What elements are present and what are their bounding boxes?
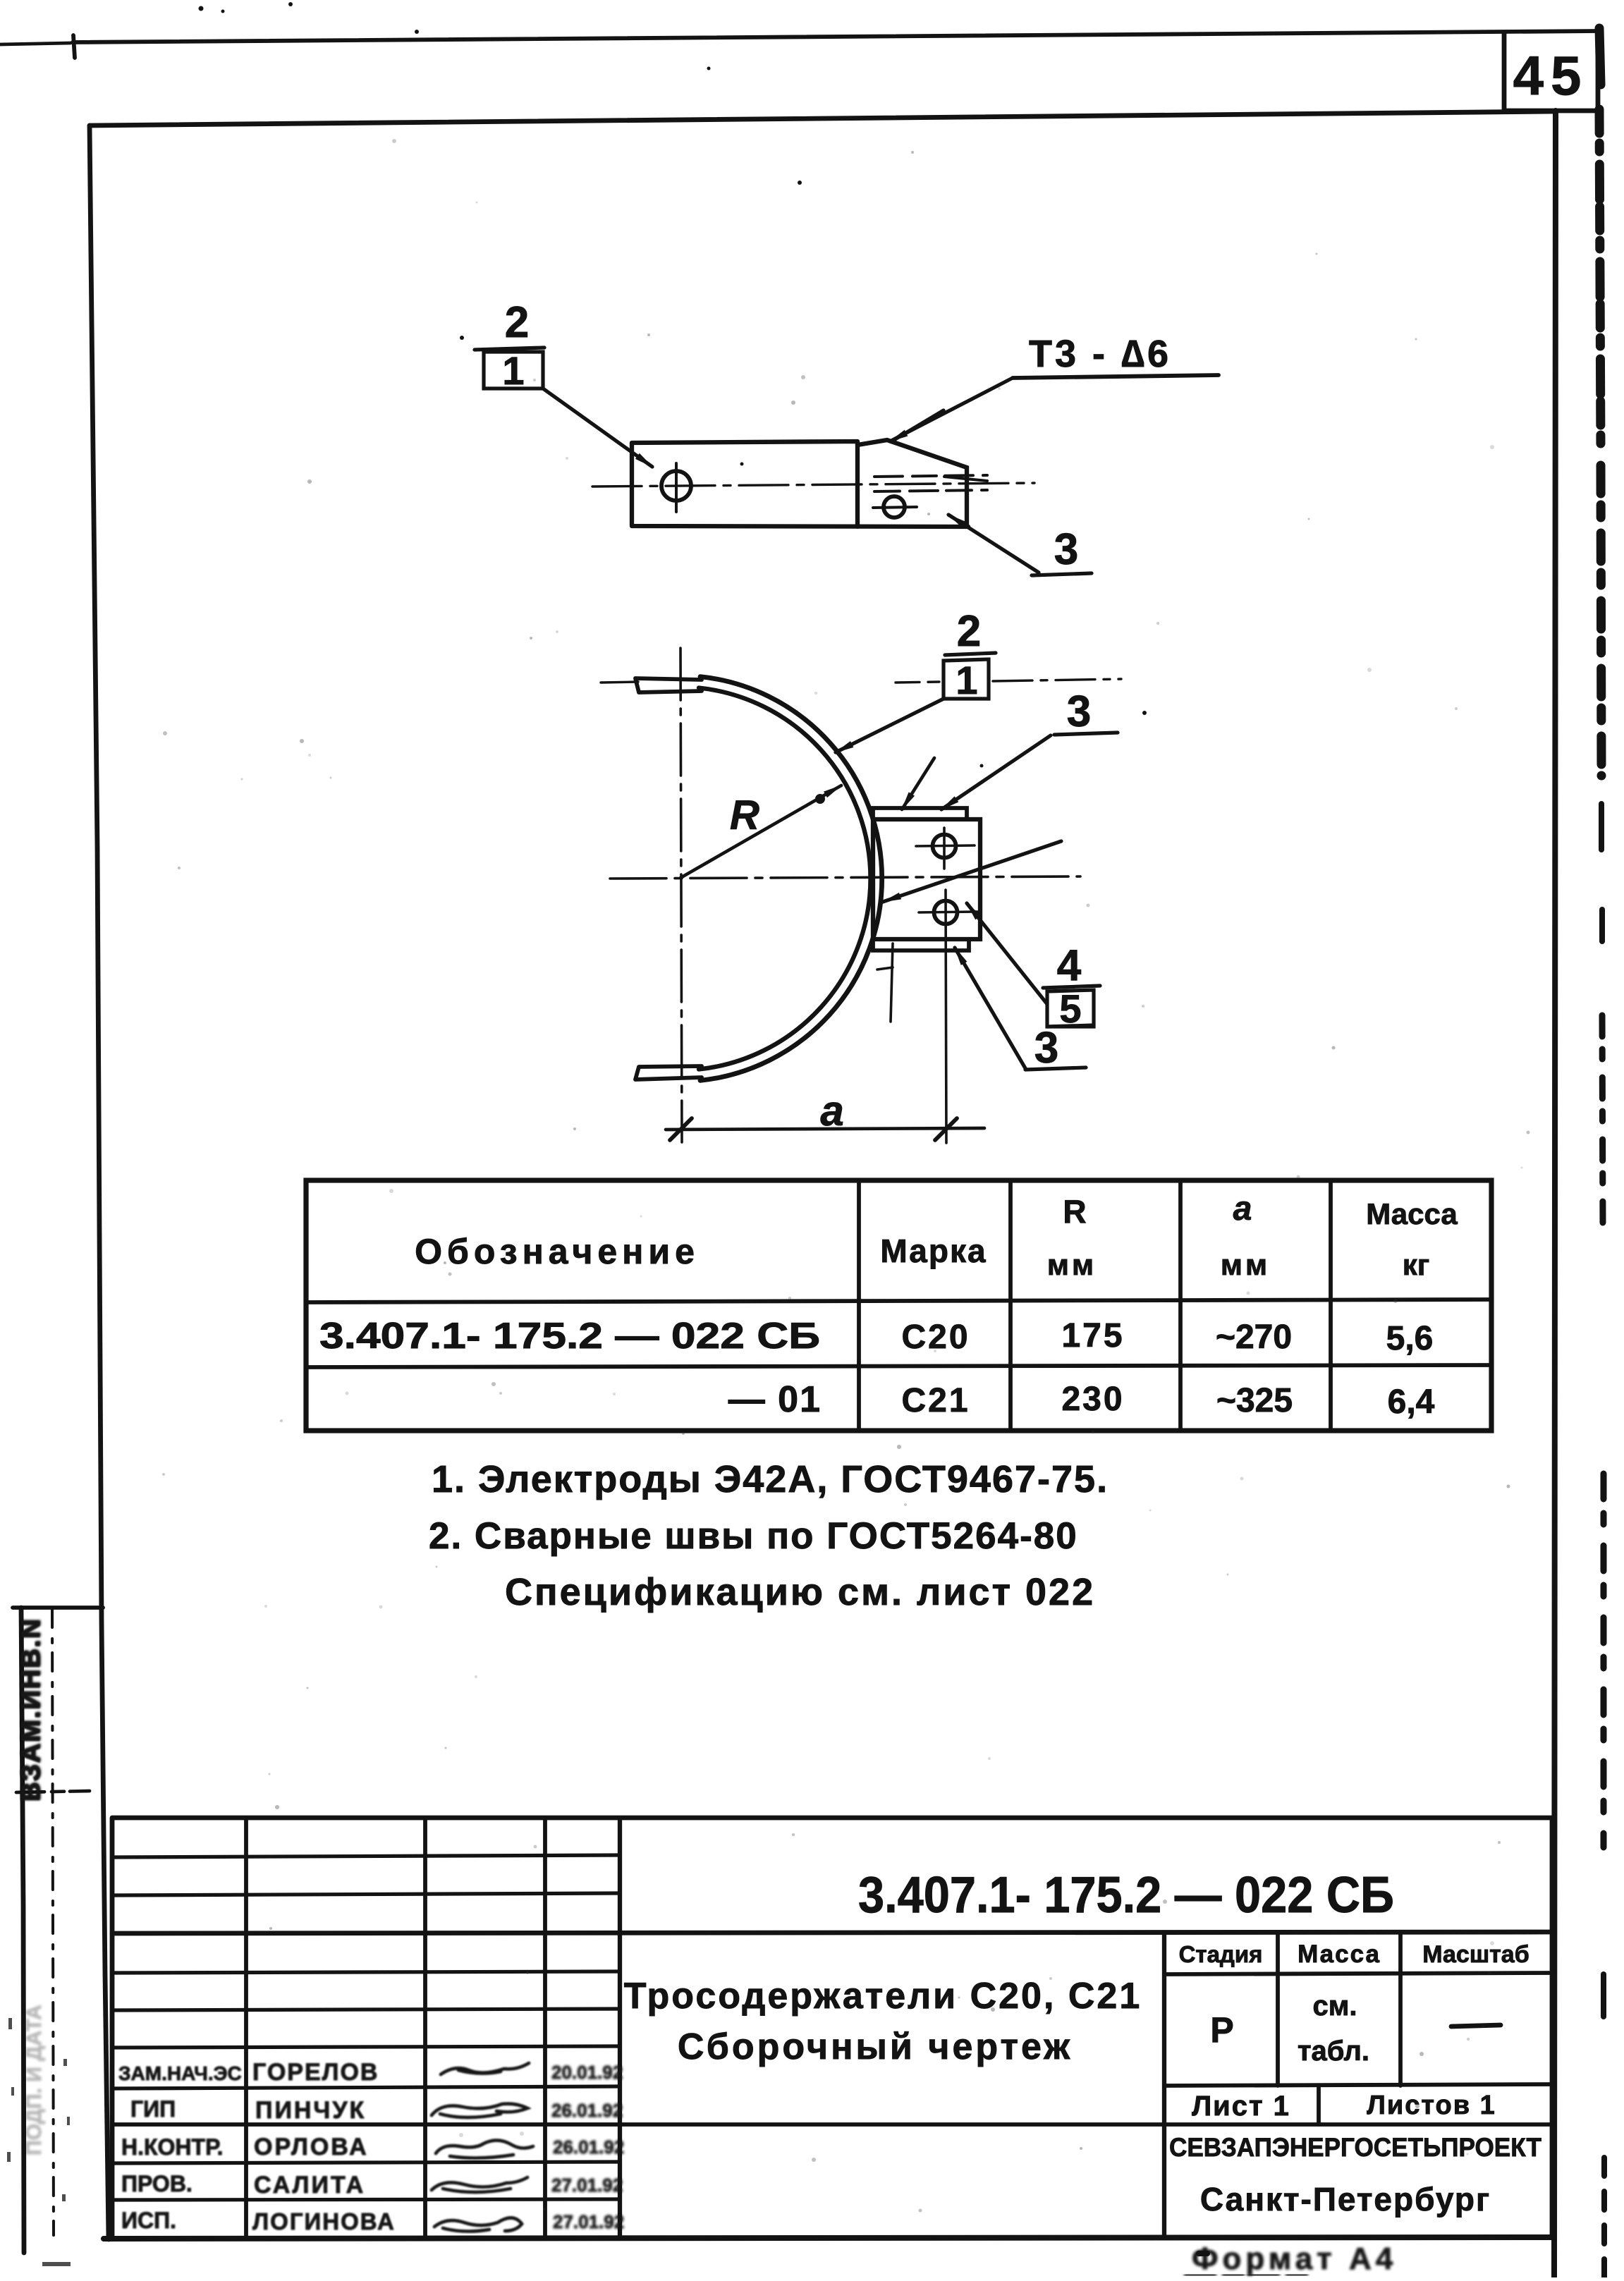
svg-text:ГИП: ГИП <box>130 2096 176 2122</box>
svg-text:R: R <box>1063 1193 1086 1230</box>
svg-text:мм: мм <box>1047 1248 1097 1281</box>
svg-text:табл.: табл. <box>1298 2036 1369 2067</box>
svg-text:Тросодержатели С20, С21: Тросодержатели С20, С21 <box>624 1976 1142 2017</box>
svg-text:САЛИТА: САЛИТА <box>254 2172 365 2199</box>
svg-text:ПРОВ.: ПРОВ. <box>121 2171 193 2196</box>
svg-text:кг: кг <box>1403 1248 1430 1281</box>
svg-text:~325: ~325 <box>1216 1382 1293 1419</box>
title block thin row lines <box>112 1855 620 1857</box>
svg-text:2: 2 <box>505 298 529 347</box>
svg-text:Масштаб: Масштаб <box>1422 1941 1529 1968</box>
svg-text:ГОРЕЛОВ: ГОРЕЛОВ <box>252 2059 379 2086</box>
long leader to strap behind plate <box>883 841 1061 902</box>
title block bottom line <box>104 2237 1554 2239</box>
table column line 2 <box>1008 1180 1013 1431</box>
svg-text:Санкт-Петербург: Санкт-Петербург <box>1200 2181 1491 2218</box>
svg-text:3: 3 <box>1034 1024 1058 1072</box>
top view hole <box>661 471 691 501</box>
upper thin plate pos 3 <box>873 808 967 819</box>
title block column lines left part <box>244 1818 248 2238</box>
top view leader to position 1 <box>543 389 652 467</box>
main plate pos 1 <box>873 819 980 939</box>
title block right sub-table <box>1162 1933 1166 2238</box>
svg-text:4: 4 <box>1057 941 1082 990</box>
svg-text:Спецификацию см. лист 022: Спецификацию см. лист 022 <box>505 1571 1095 1613</box>
frame right border <box>1554 111 1556 2277</box>
front leader 3 to upper thin plate <box>941 735 1051 809</box>
svg-text:5,6: 5,6 <box>1386 1320 1434 1357</box>
svg-text:26.01.92: 26.01.92 <box>551 2100 623 2121</box>
clamp strap outer arc <box>700 677 882 1081</box>
svg-text:1. Электроды Э42А, ГОСТ9467-75: 1. Электроды Э42А, ГОСТ9467-75. <box>432 1458 1109 1500</box>
frame left border <box>90 126 109 2239</box>
svg-text:см.: см. <box>1313 1990 1357 2022</box>
left stamp strip top line <box>13 1606 103 1610</box>
table data row line <box>306 1365 1491 1367</box>
svg-text:Сборочный чертеж: Сборочный чертеж <box>678 2026 1073 2067</box>
front view vertical centerline <box>680 648 682 1142</box>
svg-text:Стадия: Стадия <box>1179 1941 1263 1967</box>
svg-text:Обозначение: Обозначение <box>415 1232 700 1271</box>
top rule left tick <box>73 35 75 58</box>
left stamp strip mid tick <box>16 1791 90 1792</box>
front label 5 box callout <box>1047 990 1094 1027</box>
svg-text:a: a <box>1233 1190 1252 1228</box>
svg-text:6,4: 6,4 <box>1388 1383 1435 1421</box>
svg-text:3.407.1- 175.2 — 022 СБ: 3.407.1- 175.2 — 022 СБ <box>858 1867 1394 1924</box>
table outer frame <box>306 1180 1491 1431</box>
title block outer frame <box>112 1818 1552 2238</box>
svg-text:С21: С21 <box>901 1382 970 1419</box>
svg-text:Масса: Масса <box>1366 1197 1458 1230</box>
svg-text:Формат А4: Формат А4 <box>1192 2242 1397 2276</box>
radius line R <box>680 785 841 878</box>
svg-text:Марка: Марка <box>880 1233 987 1269</box>
svg-text:ВЗАМ.ИНВ.N: ВЗАМ.ИНВ.N <box>16 1618 46 1802</box>
top view wedge outline <box>857 440 967 526</box>
svg-text:175: 175 <box>1061 1317 1124 1354</box>
svg-text:Листов 1: Листов 1 <box>1367 2091 1496 2120</box>
left stamp strip inner dashed line <box>52 1609 54 2235</box>
svg-text:Лист 1: Лист 1 <box>1192 2091 1290 2122</box>
dimension a right tick <box>935 1118 957 1140</box>
title block signature row lines <box>112 2046 620 2048</box>
frame top border <box>90 111 1556 126</box>
left stamp faint lower text <box>23 2005 46 2155</box>
svg-text:230: 230 <box>1061 1381 1124 1418</box>
signature squiggles <box>441 2063 529 2074</box>
top view centerline <box>592 483 1034 487</box>
top view leader to position 3 <box>948 515 1039 573</box>
svg-text:2: 2 <box>957 607 981 656</box>
svg-text:26.01.92: 26.01.92 <box>553 2136 624 2158</box>
svg-text:27.01.92: 27.01.92 <box>553 2211 624 2232</box>
svg-text:Р: Р <box>1210 2010 1233 2050</box>
page right edge scan streaks <box>1599 28 1601 85</box>
svg-text:a: a <box>820 1087 843 1135</box>
svg-text:R: R <box>730 793 759 838</box>
clamp strap inner arc <box>699 688 870 1070</box>
table column line 4 <box>1329 1180 1333 1431</box>
mark below lower plate <box>891 943 893 1022</box>
svg-text:2. Сварные швы по ГОСТ5264-80: 2. Сварные швы по ГОСТ5264-80 <box>429 1515 1078 1557</box>
table column line 3 <box>1178 1180 1183 1431</box>
svg-text:Масса: Масса <box>1298 1940 1381 1968</box>
lower thin plate pos 3 <box>873 939 969 950</box>
title block designation cell bottom line <box>112 1932 1552 1933</box>
front view stub centerline <box>601 682 638 683</box>
svg-text:ЛОГИНОВА: ЛОГИНОВА <box>252 2208 396 2234</box>
clamp strap bottom end stub <box>635 1066 702 1080</box>
scan specks top <box>199 6 204 11</box>
svg-text:20.01.92: 20.01.92 <box>551 2062 623 2083</box>
table header row line <box>306 1300 1491 1302</box>
left margin noise specks <box>7 2018 71 2266</box>
left stamp vertical text <box>16 1618 47 1802</box>
extension line through lower hole <box>946 890 946 1143</box>
svg-text:3: 3 <box>1067 687 1091 736</box>
top view hidden lines <box>874 475 987 477</box>
table column line 1 <box>857 1180 861 1431</box>
svg-text:Н.КОНТР.: Н.КОНТР. <box>121 2134 224 2160</box>
front leader 4-5 to lower hole <box>967 903 1047 1004</box>
svg-text:27.01.92: 27.01.92 <box>551 2175 623 2196</box>
dimension a left tick <box>670 1118 692 1140</box>
second arrow to upper thin plate <box>902 758 934 809</box>
svg-text:СЕВЗАПЭНЕРГОСЕТЬПРОЕКТ: СЕВЗАПЭНЕРГОСЕТЬПРОЕКТ <box>1169 2133 1541 2162</box>
svg-text:1: 1 <box>956 658 977 702</box>
clamp strap top end stub <box>635 678 702 692</box>
sheet number box <box>1504 33 1598 111</box>
page top rule <box>0 43 71 44</box>
svg-text:3: 3 <box>1054 525 1078 574</box>
front leader to strap pos 1 <box>836 699 944 752</box>
svg-text:ЗАМ.НАЧ.ЭС: ЗАМ.НАЧ.ЭС <box>118 2062 242 2084</box>
front leader 3 to lower thin plate <box>955 948 1025 1068</box>
svg-text:ИСП.: ИСП. <box>121 2208 176 2233</box>
front view horizontal centerline <box>610 876 1080 879</box>
upper bolt hole <box>933 835 956 858</box>
left stamp strip outer line <box>21 1608 24 2253</box>
lower bolt hole <box>934 901 958 924</box>
svg-text:Т3 - ∆6: Т3 - ∆6 <box>1029 333 1171 375</box>
svg-text:ПОДП. И ДАТА: ПОДП. И ДАТА <box>23 2005 46 2155</box>
scale value dash <box>1451 2025 1501 2026</box>
svg-text:ОРЛОВА: ОРЛОВА <box>254 2134 369 2160</box>
dimension a line <box>666 1128 984 1130</box>
svg-text:1: 1 <box>502 348 524 393</box>
svg-text:3.407.1- 175.2 — 022 СБ: 3.407.1- 175.2 — 022 СБ <box>319 1316 820 1357</box>
svg-text:45: 45 <box>1513 44 1589 106</box>
top view wedge hole <box>884 496 905 518</box>
top view plate outline <box>632 441 968 527</box>
svg-text:мм: мм <box>1221 1248 1270 1281</box>
svg-text:— 01: — 01 <box>728 1379 822 1420</box>
svg-text:ПИНЧУК: ПИНЧУК <box>255 2097 366 2124</box>
top view weld leader <box>890 378 1013 441</box>
svg-text:~270: ~270 <box>1216 1319 1292 1356</box>
